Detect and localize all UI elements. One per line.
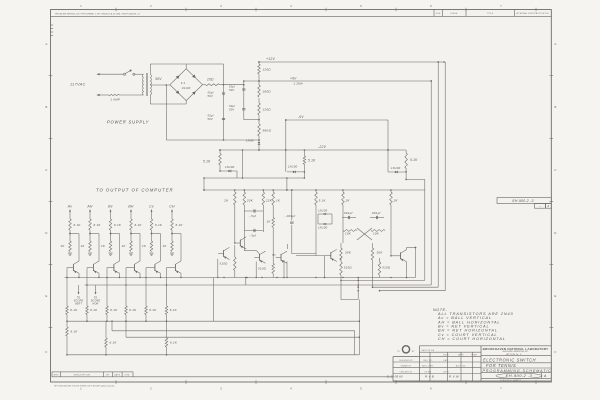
svg-text:30K: 30K xyxy=(345,251,352,255)
svg-text:REV: REV xyxy=(54,374,59,376)
svg-text:ISSUE: ISSUE xyxy=(451,13,458,15)
svg-text:R.V.W: R.V.W xyxy=(449,374,460,378)
svg-text:6.1K: 6.1K xyxy=(70,308,78,312)
svg-text:1N100: 1N100 xyxy=(318,226,328,230)
svg-text:GPO 835-580 BNL STOCK FOR: GPO 835-580 BNL STOCK FORM 514 G IN USE … xyxy=(54,385,115,388)
svg-text:4: 4 xyxy=(290,4,292,8)
svg-text:510Ω: 510Ω xyxy=(382,266,391,270)
svg-text:7: 7 xyxy=(500,4,502,8)
svg-text:510Ω: 510Ω xyxy=(258,267,267,271)
svg-text:6.1K: 6.1K xyxy=(149,308,157,312)
svg-text:1N100: 1N100 xyxy=(391,166,401,170)
svg-text:5.1K: 5.1K xyxy=(319,199,327,203)
svg-text:DATE: DATE xyxy=(114,373,121,376)
svg-text:-.001µf: -.001µf xyxy=(285,214,297,218)
svg-text:E: E xyxy=(45,294,47,298)
svg-text:SCALE FULL SHEET 1: SCALE FULL SHEET 1 xyxy=(500,379,521,382)
svg-text:CHK D: CHK D xyxy=(443,355,450,357)
svg-text:UPTON, N. Y.: UPTON, N. Y. xyxy=(506,354,523,356)
svg-text:CHK D: CHK D xyxy=(443,371,450,373)
svg-text:6.1K: 6.1K xyxy=(170,308,178,312)
svg-text:6.1K: 6.1K xyxy=(135,223,143,227)
svg-text:6.1K: 6.1K xyxy=(129,308,137,312)
svg-text:AH: AH xyxy=(86,205,93,209)
svg-text:5: 5 xyxy=(360,4,362,8)
svg-text:CHECKED BY: CHECKED BY xyxy=(400,371,414,373)
svg-text:50V: 50V xyxy=(229,107,234,111)
svg-text:CH = COURT HORIZONTAL: CH = COURT HORIZONTAL xyxy=(438,337,506,341)
svg-text:A: A xyxy=(554,42,556,46)
svg-text:10K: 10K xyxy=(373,232,380,236)
svg-text:Av: Av xyxy=(67,205,72,209)
svg-text:R + B: R + B xyxy=(425,374,434,378)
svg-text:6.1K: 6.1K xyxy=(170,341,178,345)
svg-text:117VAC: 117VAC xyxy=(70,83,86,87)
svg-text:22K: 22K xyxy=(265,199,273,203)
svg-text:6.1K: 6.1K xyxy=(110,341,118,345)
svg-text:BROOKHAVEN NATIONAL LABORATORY: BROOKHAVEN NATIONAL LABORATORY xyxy=(483,347,549,351)
svg-text:56KΩ: 56KΩ xyxy=(263,129,272,133)
svg-text:Cv: Cv xyxy=(149,205,154,209)
svg-text:1N100: 1N100 xyxy=(225,165,235,169)
svg-text:5.1K: 5.1K xyxy=(410,158,418,162)
svg-text:5: 5 xyxy=(360,386,362,390)
svg-text:50V: 50V xyxy=(208,94,213,98)
svg-text:REQ. NO.: REQ. NO. xyxy=(423,360,432,362)
svg-text:1N98: 1N98 xyxy=(246,139,254,143)
svg-text:VERT: VERT xyxy=(75,303,83,306)
svg-text:6.1K: 6.1K xyxy=(114,223,122,227)
svg-text:1N100: 1N100 xyxy=(288,165,298,169)
svg-text:HOR: HOR xyxy=(92,303,98,306)
svg-text:+12V: +12V xyxy=(266,57,276,61)
svg-text:EH-900-2 -3: EH-900-2 -3 xyxy=(506,373,533,378)
svg-text:6.1K: 6.1K xyxy=(155,223,163,227)
svg-text:A: A xyxy=(543,374,547,378)
svg-text:10K: 10K xyxy=(345,232,352,236)
svg-text:FILE: FILE xyxy=(436,13,441,15)
svg-text:5.1K: 5.1K xyxy=(308,159,316,163)
svg-text:2K: 2K xyxy=(345,199,351,203)
svg-text:120Ω: 120Ω xyxy=(263,68,272,72)
svg-text:6: 6 xyxy=(430,386,432,390)
svg-text:6.1K: 6.1K xyxy=(94,223,102,227)
svg-text:F: F xyxy=(554,350,556,354)
svg-text:36V: 36V xyxy=(155,77,162,81)
svg-text:50µf: 50µf xyxy=(208,114,214,118)
svg-text:510Ω: 510Ω xyxy=(220,262,229,266)
svg-text:INTERNAL DISTRIBUTION NO.: INTERNAL DISTRIBUTION NO. xyxy=(516,12,550,15)
svg-text:E: E xyxy=(554,294,556,298)
svg-text:3: 3 xyxy=(220,4,222,8)
svg-text:+6V: +6V xyxy=(290,76,297,80)
svg-text:CHK: CHK xyxy=(125,374,130,376)
svg-text:50V: 50V xyxy=(229,88,234,92)
svg-text:-.5µf: -.5µf xyxy=(249,214,257,218)
svg-text:BY: BY xyxy=(106,374,110,376)
svg-text:510Ω: 510Ω xyxy=(344,266,353,270)
svg-text:20K: 20K xyxy=(246,199,254,203)
svg-text:2K: 2K xyxy=(223,199,229,203)
svg-text:1 AMP: 1 AMP xyxy=(110,97,120,101)
svg-text:10Ω: 10Ω xyxy=(207,78,214,82)
svg-text:50V: 50V xyxy=(208,117,213,121)
svg-text:50µf: 50µf xyxy=(229,104,235,108)
svg-text:F: F xyxy=(45,350,47,354)
svg-text:TITLE: TITLE xyxy=(487,13,494,15)
svg-text:6.1K: 6.1K xyxy=(74,223,82,227)
svg-text:7: 7 xyxy=(500,386,502,390)
svg-text:CH: CH xyxy=(169,205,175,209)
svg-text:2: 2 xyxy=(150,386,152,390)
svg-text:DESIGNED BY: DESIGNED BY xyxy=(399,360,413,362)
svg-text:# 4: # 4 xyxy=(181,81,186,85)
svg-text:BH: BH xyxy=(128,205,134,209)
svg-text:B: B xyxy=(554,105,556,109)
svg-text:-.5µf: -.5µf xyxy=(249,233,257,237)
svg-text:.001µf: .001µf xyxy=(343,211,354,215)
svg-text:120Ω: 120Ω xyxy=(263,108,272,112)
svg-text:1: 1 xyxy=(80,4,82,8)
svg-text:6.1K: 6.1K xyxy=(71,330,79,334)
svg-text:B: B xyxy=(45,105,47,109)
svg-text:A: A xyxy=(45,42,47,46)
svg-text:2K: 2K xyxy=(393,199,399,203)
svg-text:EH-900-2 -3: EH-900-2 -3 xyxy=(512,199,533,203)
svg-text:FOR TENNIS: FOR TENNIS xyxy=(486,363,516,368)
svg-text:30K: 30K xyxy=(377,251,384,255)
svg-text:DESCRIPTION: DESCRIPTION xyxy=(74,374,91,376)
svg-text:180Ω: 180Ω xyxy=(263,90,272,94)
svg-text:.001µf: .001µf xyxy=(371,211,382,215)
svg-text:POWER SUPPLY: POWER SUPPLY xyxy=(107,120,150,125)
svg-text:50µf: 50µf xyxy=(208,91,214,95)
svg-text:6.1K: 6.1K xyxy=(176,223,184,227)
svg-text:-22V: -22V xyxy=(318,145,327,149)
svg-text:50µf: 50µf xyxy=(229,85,235,89)
svg-text:SUBM: SUBM xyxy=(471,355,477,357)
svg-text:TO OUTPUT OF COMPUTER: TO OUTPUT OF COMPUTER xyxy=(96,188,174,193)
svg-text:1N100: 1N100 xyxy=(318,209,328,213)
svg-text:-6V: -6V xyxy=(298,115,304,119)
svg-text:Bv: Bv xyxy=(108,205,113,209)
svg-text:1N100: 1N100 xyxy=(182,86,191,90)
svg-text:5.1K: 5.1K xyxy=(203,160,211,164)
svg-text:3: 3 xyxy=(220,386,222,390)
svg-text:6.1K: 6.1K xyxy=(110,308,118,312)
svg-text:2: 2 xyxy=(150,4,152,8)
svg-text:6: 6 xyxy=(430,4,432,8)
svg-text:4: 4 xyxy=(290,386,292,390)
svg-text:DR WN: DR WN xyxy=(425,371,432,373)
svg-text:A: A xyxy=(546,204,549,208)
svg-text:6.1K: 6.1K xyxy=(90,308,98,312)
svg-text:←: ← xyxy=(538,204,541,208)
svg-text:1.2MA: 1.2MA xyxy=(294,81,303,85)
svg-text:PROBLEM REPKA J.W. PRITCHARD: PROBLEM REPKA J.W. PRITCHARD J.VH. HIGGL… xyxy=(55,13,141,16)
